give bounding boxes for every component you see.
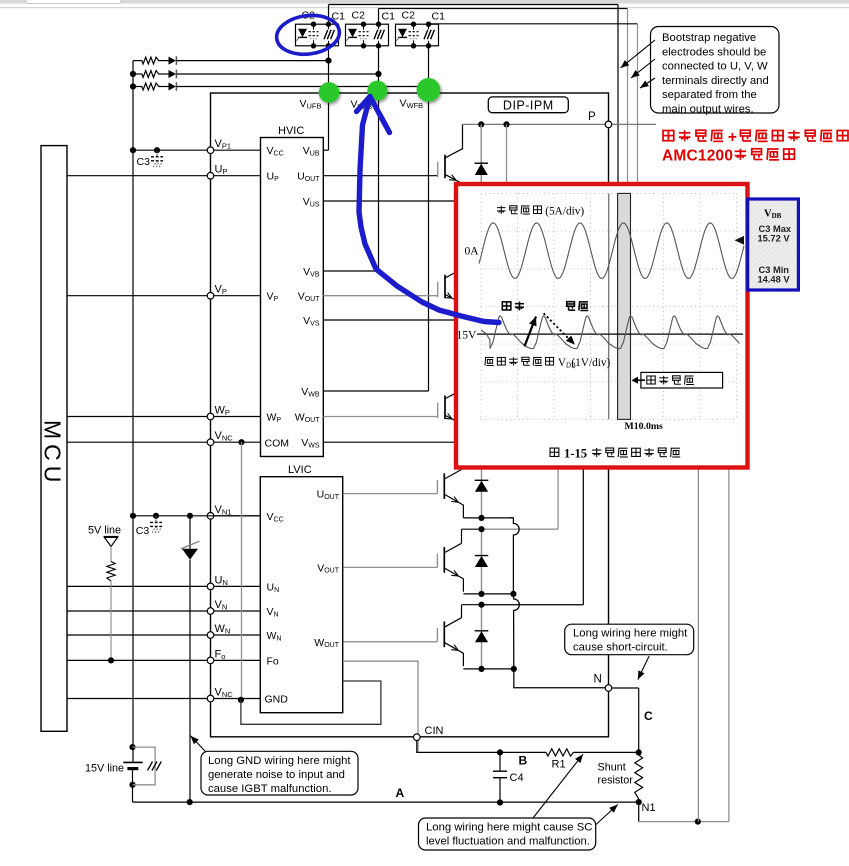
- svg-text:electrodes should be: electrodes should be: [662, 46, 766, 58]
- svg-text:cause short-circuit.: cause short-circuit.: [573, 642, 668, 654]
- svg-text:15.72 V: 15.72 V: [758, 234, 791, 244]
- svg-text:B: B: [519, 754, 528, 768]
- svg-text:Bootstrap negative: Bootstrap negative: [662, 32, 756, 44]
- svg-text:HVIC: HVIC: [278, 125, 304, 137]
- svg-text:C3: C3: [136, 525, 150, 537]
- svg-text:DIP-IPM: DIP-IPM: [503, 98, 554, 112]
- svg-text:separated from the: separated from the: [662, 89, 757, 101]
- svg-text:Shunt: Shunt: [598, 762, 626, 774]
- svg-text:cause IGBT malfunction.: cause IGBT malfunction.: [208, 783, 332, 795]
- svg-text:AMC1200: AMC1200: [662, 148, 733, 165]
- svg-text:connected to U, V, W: connected to U, V, W: [662, 61, 768, 73]
- svg-text:N: N: [594, 674, 602, 686]
- svg-text:CIN: CIN: [425, 725, 444, 737]
- svg-text:A: A: [396, 786, 405, 800]
- svg-text:15V: 15V: [457, 330, 478, 342]
- svg-text:Fo: Fo: [267, 655, 279, 667]
- svg-text:0A: 0A: [465, 246, 480, 258]
- svg-text:MCU: MCU: [40, 420, 66, 487]
- svg-text:C2: C2: [352, 9, 366, 21]
- svg-text:C1: C1: [432, 10, 446, 22]
- svg-text:level fluctuation and malfunct: level fluctuation and malfunction.: [426, 836, 590, 848]
- svg-text:N1: N1: [642, 802, 656, 814]
- svg-text:C3: C3: [137, 156, 151, 168]
- svg-text:C4: C4: [510, 772, 524, 784]
- svg-text:C1: C1: [382, 10, 396, 22]
- svg-text:R1: R1: [552, 759, 566, 771]
- svg-text:C3 Min: C3 Min: [759, 265, 790, 275]
- svg-text:1-15: 1-15: [564, 447, 587, 461]
- svg-text:(5A/div): (5A/div): [545, 206, 584, 218]
- svg-text:15V line: 15V line: [85, 763, 124, 775]
- svg-text:generate noise to input and: generate noise to input and: [208, 769, 345, 781]
- svg-text:C2: C2: [402, 9, 416, 21]
- svg-text:P: P: [588, 111, 596, 123]
- svg-text:Long wiring here might cause S: Long wiring here might cause SC: [426, 822, 592, 834]
- svg-text:LVIC: LVIC: [288, 464, 312, 476]
- svg-text:+: +: [728, 129, 737, 146]
- svg-text:C: C: [644, 709, 653, 723]
- svg-text:Long wiring here might: Long wiring here might: [573, 628, 688, 640]
- svg-text:5V line: 5V line: [88, 525, 121, 537]
- svg-text:(1V/div): (1V/div): [571, 357, 610, 369]
- svg-text:resistor: resistor: [598, 775, 634, 787]
- svg-text:COM: COM: [265, 437, 290, 449]
- svg-text:Long GND wiring here might: Long GND wiring here might: [208, 755, 351, 767]
- svg-text:GND: GND: [265, 694, 289, 706]
- svg-text:C3 Max: C3 Max: [759, 224, 792, 234]
- svg-text:terminals directly and: terminals directly and: [662, 75, 769, 87]
- svg-text:main output wires.: main output wires.: [662, 104, 754, 116]
- svg-text:M10.0ms: M10.0ms: [625, 421, 664, 432]
- svg-text:14.48 V: 14.48 V: [758, 275, 791, 285]
